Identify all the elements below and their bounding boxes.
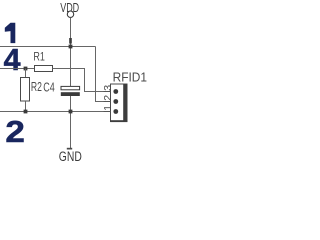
wire net 2 bottom rail	[0, 111, 111, 113]
svg-text:2: 2	[5, 114, 25, 149]
wire R1 to pin 3	[53, 69, 111, 92]
power port VDD	[60, 1, 79, 17]
wire net1 to pin 2	[96, 47, 111, 102]
ground symbol GND	[59, 148, 82, 164]
resistor R2	[21, 78, 42, 102]
pin 2 stub	[104, 101, 111, 103]
pin dot 1	[113, 109, 118, 114]
svg-text:4: 4	[4, 42, 22, 77]
pin 1 stub	[104, 111, 111, 113]
svg-text:3: 3	[103, 84, 114, 90]
svg-text:GND: GND	[59, 149, 82, 164]
wire R2 bottom stem	[25, 101, 27, 112]
wire VDD vertical (VDD to C4 top)	[70, 18, 72, 87]
resistor R1	[33, 50, 52, 72]
junction C4 / net2	[69, 110, 73, 114]
connector RFID1 body	[110, 84, 127, 122]
wire R2 top stem	[25, 69, 27, 78]
wire C4 bottom to GND	[70, 96, 72, 148]
capacitor C4	[43, 80, 80, 96]
svg-text:R2: R2	[31, 80, 42, 94]
junction R2 / net2	[24, 110, 28, 114]
junction at VDD / net1	[69, 45, 73, 49]
svg-text:2: 2	[103, 94, 114, 100]
svg-text:R1: R1	[33, 50, 45, 64]
wire net 1 horizontal	[0, 46, 96, 48]
svg-text:1: 1	[103, 104, 114, 110]
pin dot 3	[113, 89, 118, 94]
power pin end mark	[69, 38, 72, 44]
junction net4 / R2	[24, 67, 28, 71]
wire net 4 left segment	[0, 68, 35, 70]
net label 1	[5, 23, 16, 43]
svg-text:RFID1: RFID1	[113, 71, 147, 85]
pin dot 2	[113, 99, 118, 104]
pin 3 stub	[104, 91, 111, 93]
svg-text:C4: C4	[43, 80, 55, 94]
